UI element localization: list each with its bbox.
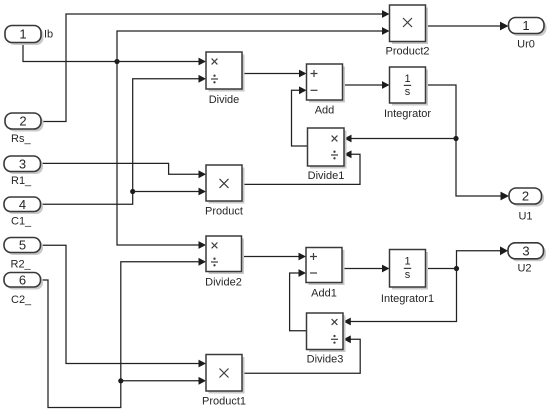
wire Divide3 output to Add1 minus-input: [290, 269, 307, 331]
block Integrator1: [381, 250, 434, 306]
wire Rs_: port2 up to Product2 input1: [41, 10, 390, 121]
inport 2 Rs_: [5, 113, 44, 145]
svg-text:Product: Product: [205, 206, 243, 218]
node U2 feedback junction dot: [454, 266, 459, 271]
svg-text:3: 3: [522, 243, 529, 258]
svg-text:R2_: R2_: [11, 259, 32, 271]
wire C1 branch to Product input2: [133, 188, 206, 196]
svg-text:2: 2: [19, 114, 26, 129]
wire Add output to Integrator input: [343, 81, 390, 89]
block Product2: [385, 5, 429, 58]
wire Divide1 output to Add minus-input: [292, 86, 308, 146]
wire C2_: port6 bus to Divide2 divide-input: [41, 258, 207, 408]
wire Ib bus down to Divide2 x-input: [117, 62, 206, 249]
svg-text:Divide3: Divide3: [307, 353, 344, 365]
block Divide3 (mirrored): [307, 313, 346, 365]
wire C1_: port4 bus up to Divide divide-input: [41, 75, 207, 204]
svg-text:3: 3: [19, 156, 26, 171]
svg-text:1: 1: [522, 18, 529, 33]
svg-text:Divide1: Divide1: [308, 170, 345, 182]
outport 3 U2: [508, 243, 546, 275]
svg-text:Ib: Ib: [44, 29, 53, 41]
block Divide: [206, 52, 245, 106]
svg-text:C1_: C1_: [11, 215, 32, 227]
svg-text:C2_: C2_: [11, 294, 32, 306]
node Ib junction dot: [114, 59, 119, 64]
wire Divide output to Add plus-input: [242, 70, 307, 78]
inport 5 R2_: [4, 238, 43, 271]
wire R2_: port5 down to Product1 input1: [41, 245, 207, 367]
block Product1: [202, 355, 246, 408]
wire Integrator1 output to out port U2: [426, 246, 509, 268]
block Divide2: [205, 236, 244, 289]
block Product: [205, 165, 244, 218]
wire Product1 output to Divide3 divide-input: [242, 335, 360, 373]
inport 6 C2_: [4, 272, 43, 306]
svg-text:4: 4: [19, 197, 26, 212]
block Integrator: [384, 67, 431, 120]
block Add1: [306, 248, 345, 300]
svg-text:6: 6: [19, 272, 26, 287]
wire R1_: port3 to Product input1: [41, 163, 207, 178]
wire U2 feedback to Divide3 x-input: [343, 269, 456, 326]
svg-text:Rs_: Rs_: [11, 133, 31, 145]
svg-text:1: 1: [404, 73, 410, 85]
svg-text:Divide: Divide: [209, 94, 240, 106]
inport 1 Ib: [5, 26, 53, 46]
wire Divide2 output to Add1 plus-input: [242, 253, 307, 261]
wire Ib: port1 to Divide x-input, junction at (117,61.5): [23, 43, 206, 66]
svg-text:Product1: Product1: [202, 396, 246, 408]
wire U1 feedback to Divide1 x-input: [344, 135, 456, 143]
node C1 junction dot: [130, 189, 135, 194]
svg-text:Add: Add: [315, 104, 335, 116]
svg-text:U2: U2: [517, 263, 531, 275]
inport 3 R1_: [4, 156, 43, 187]
svg-text:Integrator: Integrator: [384, 108, 431, 120]
wire Product2 output to Ur0: [426, 22, 509, 31]
svg-text:5: 5: [19, 238, 26, 253]
svg-text:Add1: Add1: [311, 288, 337, 300]
svg-text:Ur0: Ur0: [517, 39, 535, 51]
wire Integrator output down to out port U1: [426, 85, 510, 200]
node U1 feedback junction dot: [453, 136, 458, 141]
inport 4 C1_: [4, 197, 43, 228]
svg-text:R1_: R1_: [11, 175, 32, 187]
wire Ib branch up to Product2 input2: [117, 27, 390, 61]
outport 2 U1: [509, 188, 544, 223]
block Divide1 (mirrored): [308, 128, 347, 182]
block Add: [307, 64, 346, 116]
svg-text:U1: U1: [518, 211, 532, 223]
node C2 junction dot: [118, 378, 123, 383]
wire Product output to Divide1 divide-input: [242, 150, 360, 184]
svg-text:Product2: Product2: [385, 46, 429, 58]
outport 1 Ur0: [509, 18, 547, 51]
wire Add1 output to Integrator1 input: [342, 265, 390, 273]
svg-text:2: 2: [522, 189, 529, 204]
svg-text:Integrator1: Integrator1: [381, 293, 434, 305]
svg-text:s: s: [405, 86, 411, 98]
svg-text:Divide2: Divide2: [205, 277, 242, 289]
svg-text:s: s: [405, 269, 411, 281]
svg-text:1: 1: [19, 27, 26, 42]
wire C2 branch to Product1 input2: [121, 377, 206, 385]
svg-text:1: 1: [404, 256, 410, 268]
